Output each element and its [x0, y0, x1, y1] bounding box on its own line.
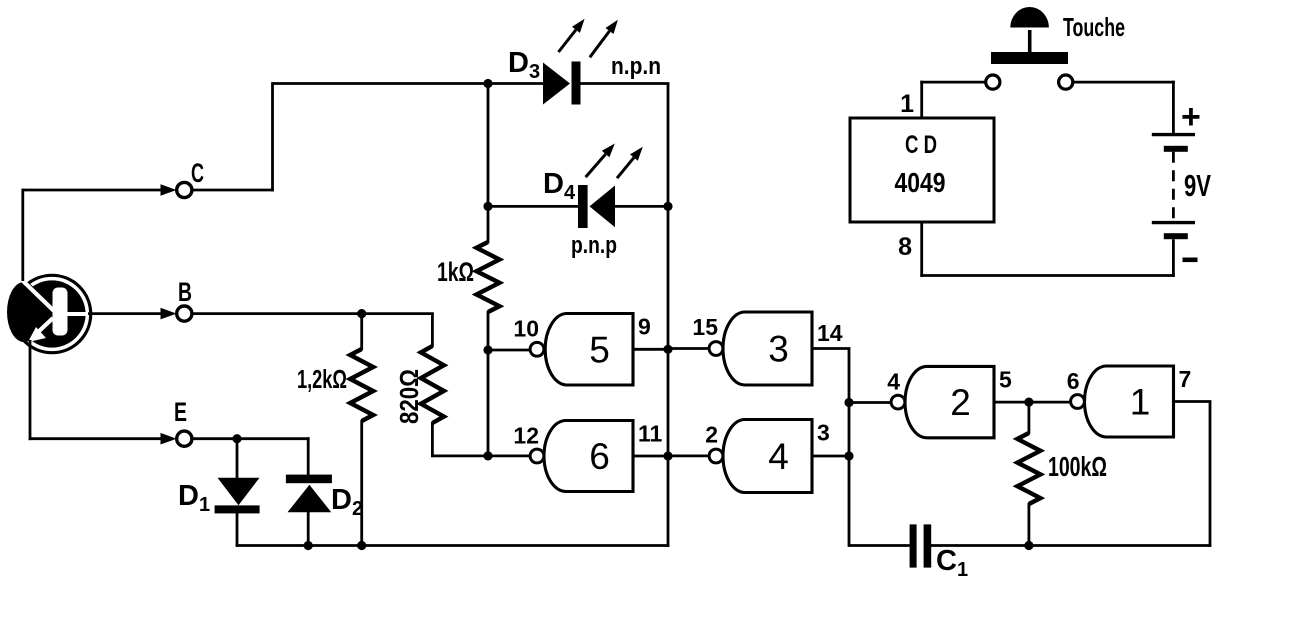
- battery 9V: [1152, 135, 1195, 240]
- svg-text:5: 5: [589, 329, 610, 370]
- wire D4 right: [615, 205, 670, 208]
- svg-text:C D: C D: [905, 131, 937, 159]
- junction gate4 out: [844, 451, 853, 460]
- wire gate4 output: [812, 455, 850, 458]
- wire 820 bottom lead: [431, 422, 434, 457]
- wire right vertical rail: [667, 84, 670, 547]
- wire gate2 output to gate1 input: [994, 401, 1072, 404]
- junction gate6 out/rail: [663, 451, 672, 460]
- inverter gate 1 (pins 6->7): [1067, 366, 1192, 437]
- wire gate1 output: [1174, 400, 1212, 403]
- wire bottom-right rail: [931, 544, 1212, 547]
- inverter gate 2 (pins 4->5): [887, 366, 1012, 437]
- inverter gate 6 (pins 12->11): [513, 421, 662, 492]
- wire D4 left: [488, 205, 579, 208]
- wire 1.2k bottom lead: [360, 420, 363, 546]
- wire 100k top lead: [1028, 402, 1031, 434]
- svg-text:1: 1: [900, 90, 914, 118]
- svg-text:C: C: [191, 158, 204, 188]
- wire vertical gate3-out down to bottom rail: [848, 349, 851, 547]
- svg-text:4049: 4049: [895, 167, 946, 198]
- wire 1k upper vertical: [487, 82, 490, 243]
- wire vertical up to top rail: [271, 82, 274, 191]
- wire D2 top lead: [307, 437, 310, 475]
- svg-text:+: +: [1181, 98, 1201, 136]
- resistor R 1k: [477, 242, 500, 312]
- diode D1: [215, 478, 260, 514]
- wire 1.2k top lead: [360, 314, 363, 350]
- junction D4 line: [483, 202, 492, 211]
- wire collector lead (transistor to C corner): [21, 189, 24, 281]
- svg-text:7: 7: [1179, 366, 1192, 392]
- junction D2/bottom rail: [304, 541, 313, 550]
- wire switch to battery: [1073, 81, 1175, 84]
- svg-text:6: 6: [1067, 368, 1080, 394]
- svg-text:9V: 9V: [1184, 168, 1211, 203]
- resistor R 820: [421, 346, 444, 423]
- junction top rail/1k branch: [483, 79, 492, 88]
- wire B line right: [192, 312, 434, 315]
- svg-text:3: 3: [768, 329, 789, 370]
- inverter gate 4 (pins 2->3): [705, 420, 830, 493]
- wire D1 top lead: [236, 439, 239, 479]
- LED D4 (pnp indicator): [578, 185, 615, 228]
- svg-text:14: 14: [817, 320, 843, 346]
- capacitor C1: [910, 524, 932, 567]
- svg-text:3: 3: [817, 420, 830, 446]
- terminal C (arrow + probe circle): [161, 182, 192, 197]
- wire bottom-left rail: [236, 544, 670, 547]
- transistor under test (circle symbol): [7, 275, 91, 352]
- svg-text:5: 5: [999, 366, 1012, 392]
- wire gate3 output: [812, 347, 850, 350]
- junction to gate2 input: [844, 398, 853, 407]
- svg-text:9: 9: [638, 314, 651, 340]
- svg-text:12: 12: [513, 423, 539, 449]
- wire bottom rail to C1: [849, 544, 910, 547]
- svg-text:E: E: [174, 397, 187, 427]
- wire D2 bottom lead: [307, 512, 310, 546]
- wire down to battery +: [1172, 81, 1175, 135]
- junction E/D1: [232, 434, 241, 443]
- junction B/1.2k: [357, 309, 366, 318]
- LED D3 (npn indicator): [543, 62, 581, 105]
- svg-text:100kΩ: 100kΩ: [1048, 451, 1107, 482]
- wire 820 to gate6 input: [432, 454, 530, 457]
- junction D4/right rail: [663, 202, 672, 211]
- svg-text:1kΩ: 1kΩ: [437, 257, 474, 287]
- svg-text:15: 15: [692, 314, 718, 340]
- resistor R 100k: [1017, 433, 1040, 504]
- junction gate5 out/rail: [663, 345, 672, 354]
- wire top rail right of D3: [581, 82, 670, 85]
- wire emitter lead (transistor to E line): [29, 340, 32, 440]
- svg-text:6: 6: [589, 436, 610, 477]
- terminal E (arrow + probe circle): [161, 431, 192, 446]
- junction 1.2k/bottom rail: [357, 541, 366, 550]
- wire E line left: [29, 437, 170, 440]
- wire pin8 up to box: [920, 222, 923, 277]
- wire 100k bottom lead: [1028, 503, 1031, 546]
- svg-text:1: 1: [1130, 382, 1151, 423]
- svg-text:4: 4: [768, 436, 789, 477]
- wire B line left: [88, 312, 170, 315]
- inverter gate 3 (pins 15->14): [692, 312, 842, 385]
- wire C line left: [23, 189, 170, 192]
- svg-text:4: 4: [887, 368, 900, 394]
- junction gate6 input: [483, 451, 492, 460]
- wire 1k lower vertical: [487, 311, 490, 456]
- junction 100k/bottom rail: [1024, 541, 1033, 550]
- wire D1 bottom lead: [236, 513, 239, 547]
- svg-text:10: 10: [513, 316, 539, 342]
- wire rail to gate4 input: [668, 454, 710, 457]
- svg-text:2: 2: [705, 422, 718, 448]
- light arrows of D3: [559, 19, 618, 58]
- wire gate6 output to rail: [633, 455, 669, 458]
- wire top rail left of D3: [273, 82, 544, 85]
- resistor R 1,2k: [350, 349, 373, 421]
- svg-text:Touche: Touche: [1063, 12, 1125, 42]
- wire gate1 output down: [1209, 402, 1212, 547]
- wire battery - down: [1172, 239, 1175, 277]
- wire pin1 up: [920, 81, 923, 118]
- terminal B (arrow + probe circle): [161, 306, 192, 321]
- wire E line right: [192, 437, 310, 440]
- push button Touche: [986, 7, 1073, 89]
- wire rail to gate3 input: [668, 347, 710, 350]
- svg-text:p.n.p: p.n.p: [571, 232, 617, 259]
- junction gate5 input: [483, 345, 492, 354]
- svg-text:8: 8: [898, 233, 912, 261]
- svg-text:820Ω: 820Ω: [394, 369, 424, 424]
- svg-text:B: B: [178, 277, 192, 307]
- wire to gate5 input: [488, 349, 531, 352]
- svg-text:11: 11: [638, 421, 663, 447]
- wire 820 top lead: [431, 314, 434, 347]
- svg-text:1,2kΩ: 1,2kΩ: [297, 364, 347, 394]
- svg-text:2: 2: [950, 382, 971, 423]
- junction gate2 out/100k: [1024, 398, 1033, 407]
- label -: [1183, 258, 1198, 263]
- wire to gate2 input: [849, 401, 892, 404]
- wire C line right: [192, 189, 274, 192]
- diode D2: [286, 475, 332, 513]
- inverter gate 5 (pins 10->9): [513, 314, 650, 386]
- wire bottom return: [920, 274, 1175, 277]
- light arrows of D4: [586, 144, 643, 179]
- wire gate5 output to rail: [633, 348, 669, 351]
- svg-text:n.p.n: n.p.n: [611, 53, 661, 80]
- wire pin1 to switch: [920, 81, 985, 84]
- IC CD4049 box: [850, 118, 994, 222]
